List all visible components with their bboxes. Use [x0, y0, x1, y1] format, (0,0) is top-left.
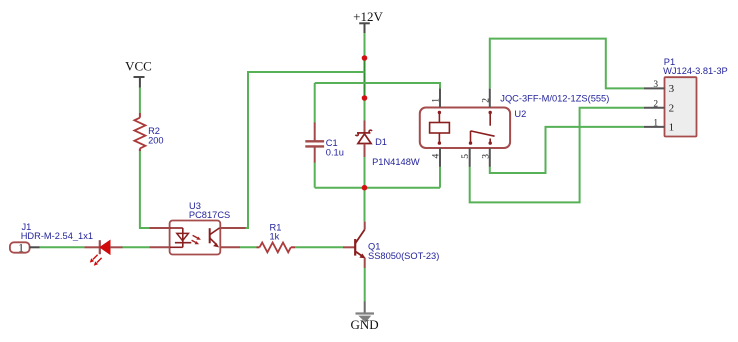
junction dot B [362, 95, 368, 101]
connector P1 [644, 57, 728, 137]
svg-text:JQC-3FF-M/012-1ZS(555): JQC-3FF-M/012-1ZS(555) [500, 94, 609, 104]
optocoupler U3 [149, 201, 245, 254]
svg-text:200: 200 [148, 135, 164, 145]
resistor R1 [257, 222, 296, 252]
U2 pin 3 [489, 148, 491, 167]
U3 pin 4 (collector) [220, 227, 246, 229]
U3 emission arrows [193, 235, 198, 238]
svg-text:2: 2 [481, 98, 491, 103]
wire VCC to R2 to U3 pin1 [139, 87, 141, 113]
svg-text:P1N4148W: P1N4148W [372, 157, 420, 167]
svg-text:SS8050(SOT-23): SS8050(SOT-23) [368, 251, 439, 261]
svg-text:5: 5 [461, 154, 471, 159]
wire relay pin4 riser [439, 167, 441, 188]
svg-text:1: 1 [653, 118, 658, 128]
svg-text:R2: R2 [148, 126, 160, 136]
wire LED to U3 pin2 [122, 246, 149, 248]
P1 pin 2 [644, 107, 665, 109]
LED emission arrows [93, 255, 98, 260]
wire D1 branch top [364, 98, 366, 121]
svg-text:U2: U2 [514, 109, 526, 119]
wire horizontal A to left loop [245, 72, 365, 228]
U3 internal LED [170, 227, 183, 229]
svg-text:1: 1 [431, 98, 441, 103]
wire Q1 emitter to GND [364, 268, 366, 303]
wire Q1 collector riser [364, 188, 366, 222]
+12V power bar [359, 22, 370, 24]
resistor R2 [134, 113, 163, 151]
wire relay pin2 to P1 pin3 [490, 39, 644, 89]
U2 switch [489, 111, 492, 114]
wire P1 pin2 to relay pin5 [470, 108, 644, 203]
U3 pin 3 (emitter) [220, 246, 240, 248]
svg-text:C1: C1 [326, 138, 338, 148]
U3 pin 2 (cathode) [149, 246, 170, 248]
U2 pin 1 [439, 89, 441, 108]
P1 pin 1 [644, 126, 665, 128]
wire horizontal B (C1 top to relay pin1) [315, 83, 440, 89]
svg-text:1: 1 [669, 122, 675, 134]
junction dot A [362, 55, 368, 61]
svg-text:2: 2 [669, 102, 675, 114]
U3 pin 1 (anode) [149, 227, 170, 229]
ground GND [351, 302, 379, 333]
svg-text:3: 3 [669, 83, 675, 95]
svg-text:4: 4 [431, 154, 441, 159]
svg-text:+12V: +12V [353, 9, 383, 24]
wire J1 to LED [40, 246, 85, 248]
svg-text:HDR-M-2.54_1x1: HDR-M-2.54_1x1 [21, 231, 93, 241]
svg-text:2: 2 [653, 99, 658, 109]
wire R1 to Q1 base [295, 246, 343, 248]
transistor Q1 [343, 222, 439, 268]
svg-text:1k: 1k [270, 232, 280, 242]
U2 pin 4 [439, 148, 441, 167]
svg-text:GND: GND [351, 317, 379, 332]
wire main vertical between junctions (dark) [364, 58, 366, 98]
svg-text:3: 3 [653, 80, 658, 90]
connector J1 [10, 222, 93, 254]
relay U2 [420, 89, 610, 167]
wire C1 branch top [314, 83, 316, 123]
junction dot C [362, 185, 368, 191]
wire P1 pin1 to relay pin3 [490, 127, 644, 173]
P1 pin 3 [644, 87, 665, 89]
power flag +12V [353, 9, 383, 33]
wire +12V stub to junction [364, 33, 366, 58]
wire bottom horizontal [315, 187, 440, 189]
U2 pin 2 [489, 89, 491, 108]
svg-text:WJ124-3.81-3P: WJ124-3.81-3P [663, 66, 728, 76]
VCC power bar [134, 76, 145, 78]
power flag VCC [125, 59, 152, 88]
U2 pin 5 [469, 148, 471, 167]
svg-text:0.1u: 0.1u [326, 147, 344, 157]
U2 coil [438, 111, 441, 114]
wire U3 emitter to R1 [240, 246, 257, 248]
wire C1 branch bottom [314, 162, 316, 188]
U3 phototransistor [209, 228, 211, 243]
svg-text:D1: D1 [375, 137, 387, 147]
diode D1 [356, 121, 420, 168]
capacitor C1 [305, 123, 344, 163]
svg-text:PC817CS: PC817CS [189, 210, 230, 220]
LED (on J1 line) [84, 240, 122, 266]
svg-text:3: 3 [481, 154, 491, 159]
svg-text:VCC: VCC [125, 59, 152, 74]
svg-text:1: 1 [18, 243, 24, 255]
wire D1 branch bottom [364, 157, 366, 188]
